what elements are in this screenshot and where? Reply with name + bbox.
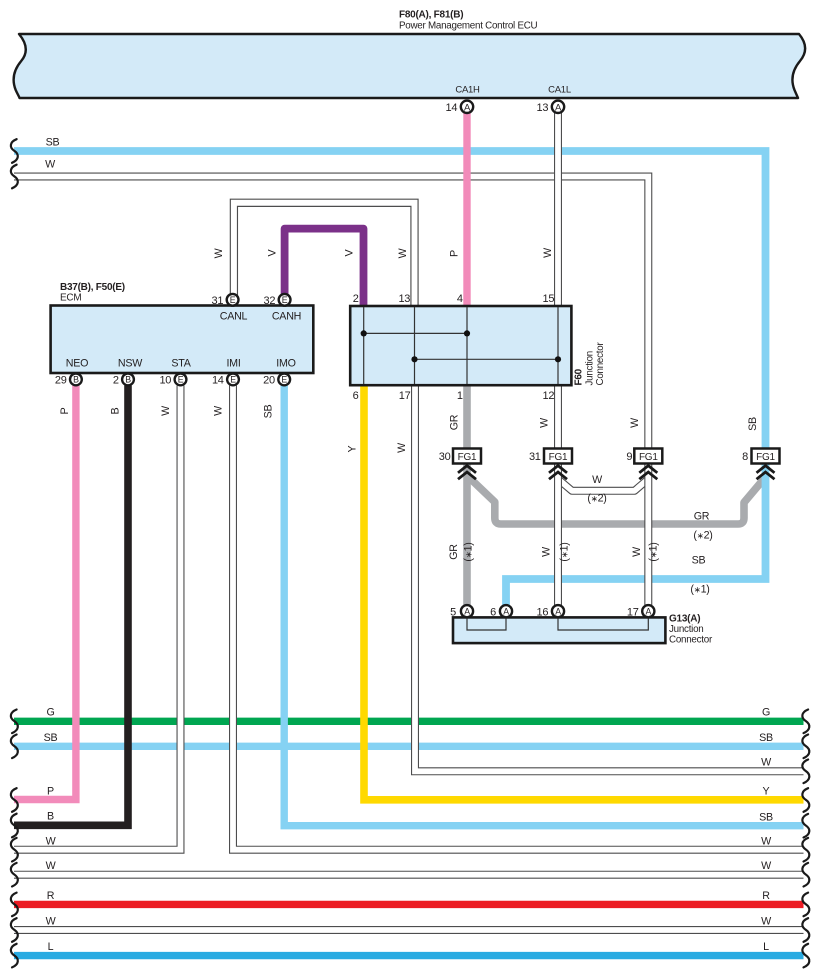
bottom left wire labels — [44, 707, 58, 954]
break symbol left G — [11, 710, 18, 734]
break symbol left W row7 — [11, 863, 18, 887]
label GR (wire F60 pin 1) — [449, 414, 461, 430]
svg-text:V: V — [267, 248, 279, 256]
svg-text:17: 17 — [627, 607, 639, 619]
svg-text:W: W — [629, 417, 641, 428]
svg-text:A: A — [645, 607, 651, 617]
break symbol right W row6 — [802, 838, 809, 862]
svg-text:W: W — [541, 546, 553, 557]
svg-text:W: W — [160, 405, 172, 416]
shield symbol below 30 FG1 — [458, 466, 476, 480]
svg-text:Connector: Connector — [595, 342, 606, 386]
svg-text:W: W — [397, 247, 409, 258]
connector 8 FG1 — [742, 449, 779, 464]
svg-text:B: B — [47, 811, 54, 823]
svg-text:L: L — [763, 941, 769, 953]
ECM pin 10 E — [159, 374, 186, 387]
svg-text:9: 9 — [626, 451, 632, 463]
svg-text:GR: GR — [449, 414, 461, 430]
shield symbol below 8 FG1 — [757, 466, 775, 480]
svg-text:SB: SB — [46, 137, 60, 149]
label W (wire F60 pin 12) — [539, 417, 551, 428]
label W (wire CANL loop) — [213, 247, 225, 258]
svg-text:B: B — [125, 375, 131, 385]
svg-text:IMI: IMI — [226, 358, 240, 370]
svg-text:F60: F60 — [574, 368, 585, 385]
svg-text:CA1L: CA1L — [548, 85, 571, 96]
shield symbol below 9 FG1 — [639, 466, 657, 480]
svg-text:A: A — [464, 607, 470, 617]
connector CA1H pin 14 A — [446, 101, 474, 114]
svg-text:W: W — [46, 916, 57, 928]
svg-text:6: 6 — [490, 607, 496, 619]
svg-text:B: B — [110, 407, 122, 414]
svg-text:GR: GR — [448, 544, 460, 560]
svg-text:Y: Y — [347, 445, 359, 452]
label SB (top left row) — [46, 137, 60, 149]
ECM pin 32 E — [264, 294, 291, 307]
ECM pin 20 E — [263, 374, 290, 387]
svg-text:12: 12 — [543, 390, 555, 402]
svg-text:FG1: FG1 — [458, 452, 477, 463]
svg-text:32: 32 — [264, 295, 276, 307]
svg-text:W: W — [542, 247, 554, 258]
wire GR (*1) from F60 pin 1 through 30 FG1 to G13 pin 5 — [463, 385, 471, 606]
G13 pin 17 A — [627, 605, 655, 618]
label B (wire NSW) — [110, 407, 122, 414]
wire W (white, bottom full row 2) — [14, 926, 804, 934]
wire W: F60 pin 12 through 31 FG1 to G13 pin 16 — [554, 386, 562, 605]
svg-text:FG1: FG1 — [549, 452, 568, 463]
svg-text:SB: SB — [759, 732, 773, 744]
svg-text:13: 13 — [537, 102, 549, 114]
svg-text:NEO: NEO — [66, 358, 88, 370]
svg-text:17: 17 — [399, 390, 411, 402]
svg-text:Junction: Junction — [585, 351, 596, 386]
svg-text:R: R — [47, 890, 55, 902]
label W (wire above 9 FG1) — [629, 417, 641, 428]
svg-text:W: W — [761, 860, 772, 872]
F60 junction connector box — [350, 293, 606, 402]
label V (wire CANH right) — [344, 248, 356, 256]
connector CA1L pin 13 A — [537, 101, 565, 114]
svg-text:(∗1): (∗1) — [648, 542, 660, 561]
break symbol left L — [11, 944, 18, 968]
break symbol right W row9 — [802, 918, 809, 942]
break symbol left W top — [11, 165, 18, 189]
G13 pin 16 A — [537, 605, 565, 618]
break symbol left W row6 — [11, 838, 18, 862]
svg-text:G: G — [762, 707, 770, 719]
svg-text:B: B — [73, 375, 79, 385]
svg-text:2: 2 — [353, 293, 359, 305]
wire B: ECM NSW pin 2 down then left to edge — [14, 386, 128, 826]
svg-text:P: P — [59, 407, 71, 414]
label W (*1) below 31 FG1 — [541, 542, 571, 561]
svg-text:P: P — [47, 786, 54, 798]
svg-text:Junction: Junction — [669, 624, 704, 635]
svg-text:E: E — [230, 375, 236, 385]
label W (*2) on shield link — [587, 474, 606, 505]
wire W (white, bottom full row 1) — [14, 871, 804, 879]
wire W (*2) link between 31 FG1 and 9 FG1 shields — [558, 479, 648, 491]
svg-text:8: 8 — [742, 451, 748, 463]
wire Y: F60 pin 6 down then right to edge — [364, 386, 804, 800]
svg-text:STA: STA — [171, 358, 191, 370]
wire SB main: top row to right side down to SB(*1) into G13 pin 6 — [14, 151, 766, 605]
svg-text:V: V — [344, 248, 356, 256]
wire W: F60 pin 17 down then right to edge — [415, 386, 804, 771]
svg-text:31: 31 — [212, 295, 224, 307]
svg-text:G: G — [46, 707, 54, 719]
svg-text:W: W — [213, 405, 225, 416]
break symbol left SB top — [11, 139, 18, 163]
svg-text:W: W — [46, 860, 57, 872]
svg-text:14: 14 — [212, 374, 224, 386]
label W (wire F60 pin 17) — [396, 442, 408, 453]
svg-text:(∗1): (∗1) — [690, 584, 709, 596]
ECU F80/F81 band (Power Management Control ECU) — [14, 10, 805, 99]
wire R (red, bottom row) — [14, 901, 804, 908]
svg-text:14: 14 — [446, 102, 458, 114]
svg-text:IMO: IMO — [276, 358, 295, 370]
svg-text:31: 31 — [529, 451, 541, 463]
svg-text:FG1: FG1 — [756, 452, 775, 463]
wire W: ECM STA pin 10 down then left to edge — [14, 386, 181, 850]
ECM pin 29 B — [55, 374, 82, 387]
label W (wire IMI) — [213, 405, 225, 416]
svg-text:16: 16 — [537, 607, 549, 619]
svg-text:(∗2): (∗2) — [587, 493, 606, 505]
G13 pin 6 A — [490, 605, 512, 618]
break symbol left B — [11, 814, 18, 838]
svg-text:GR: GR — [694, 511, 710, 523]
G13 pin 5 A — [450, 605, 473, 618]
label P (wire CA1H) — [449, 250, 461, 257]
connector 9 FG1 — [626, 449, 662, 464]
wire L (blue, bottom row) — [14, 952, 804, 959]
svg-text:(∗1): (∗1) — [559, 542, 571, 561]
svg-text:20: 20 — [263, 374, 275, 386]
svg-text:E: E — [230, 295, 236, 305]
label P (wire NEO) — [59, 407, 71, 414]
svg-text:NSW: NSW — [118, 358, 143, 370]
label GR (*2) on gray branch — [693, 511, 712, 542]
svg-text:10: 10 — [159, 374, 171, 386]
break symbol left W row9 — [11, 918, 18, 942]
svg-text:(∗1): (∗1) — [463, 542, 475, 561]
svg-text:CANL: CANL — [220, 311, 248, 323]
svg-text:W: W — [761, 916, 772, 928]
svg-text:CA1H: CA1H — [455, 85, 480, 96]
break symbol right Y — [802, 788, 809, 812]
svg-text:W: W — [213, 247, 225, 258]
svg-text:1: 1 — [457, 390, 463, 402]
shield symbol below 31 FG1 — [549, 466, 567, 480]
svg-text:5: 5 — [450, 607, 456, 619]
connector 31 FG1 — [529, 449, 572, 464]
svg-text:A: A — [464, 102, 471, 113]
svg-text:F80(A), F81(B): F80(A), F81(B) — [399, 10, 463, 21]
wire P: ECM NEO pin 29 down then left to edge — [14, 386, 76, 800]
svg-text:A: A — [503, 607, 509, 617]
svg-text:CANH: CANH — [272, 311, 301, 323]
svg-text:W: W — [761, 757, 772, 769]
ECM pin 14 E — [212, 374, 239, 387]
bottom right wire labels — [759, 707, 773, 954]
break symbol right G — [802, 710, 809, 734]
break symbol left P — [11, 788, 18, 812]
svg-text:W: W — [539, 417, 551, 428]
label SB (wire IMO) — [263, 405, 275, 419]
wire W: ECM IMI pin 14 down then right to edge — [233, 386, 804, 850]
svg-text:SB: SB — [263, 405, 275, 419]
svg-text:R: R — [762, 890, 770, 902]
svg-text:ECM: ECM — [60, 293, 81, 304]
wire W: CA1L down to F60 pin 15 — [554, 113, 562, 306]
break symbol left R — [11, 893, 18, 917]
svg-text:E: E — [282, 295, 288, 305]
svg-text:A: A — [555, 102, 562, 113]
svg-text:W: W — [631, 546, 643, 557]
break symbol right R — [802, 893, 809, 917]
svg-text:4: 4 — [457, 293, 463, 305]
svg-text:Y: Y — [763, 786, 770, 798]
svg-text:B37(B), F50(E): B37(B), F50(E) — [60, 282, 125, 293]
svg-text:SB: SB — [759, 811, 773, 823]
svg-text:Connector: Connector — [669, 635, 713, 646]
break symbol right SB — [802, 735, 809, 759]
svg-text:15: 15 — [543, 293, 555, 305]
break symbol right W row3 — [802, 760, 809, 784]
svg-text:A: A — [555, 607, 561, 617]
break symbol right SB row5 — [802, 814, 809, 838]
svg-text:SB: SB — [747, 417, 759, 431]
wire W: top row turning down through 9 FG1 to G13 pin 17 — [14, 177, 648, 606]
wire SB: ECM IMO pin 20 down then right to edge — [284, 386, 803, 826]
connector 30 FG1 — [439, 449, 481, 464]
svg-text:W: W — [592, 474, 603, 486]
wire GR shield branch (*2) from 30 FG1 to 8 FG1 — [467, 476, 766, 525]
svg-text:13: 13 — [398, 293, 410, 305]
G13(A) junction connector box — [453, 614, 713, 646]
label SB (*1) on SB branch — [690, 555, 709, 596]
label W (wire STA) — [160, 405, 172, 416]
svg-text:2: 2 — [113, 374, 119, 386]
label W (wire into F60 pin 13) — [397, 247, 409, 258]
wire P: CA1H down to F60 pin 4 — [463, 113, 470, 306]
ECM pin 31 E — [212, 294, 239, 307]
svg-text:W: W — [45, 159, 56, 171]
svg-text:G13(A): G13(A) — [669, 614, 700, 625]
break symbol right L — [802, 944, 809, 968]
svg-text:E: E — [178, 375, 184, 385]
svg-text:30: 30 — [439, 451, 451, 463]
svg-text:L: L — [48, 941, 54, 953]
break symbol right W row7 — [802, 863, 809, 887]
wire V: ECM pin 32 CANH up and over to F60 pin 2 — [285, 229, 364, 306]
label SB (wire above 8 FG1) — [747, 417, 759, 431]
label W (*1) below 9 FG1 — [631, 542, 660, 561]
svg-text:W: W — [46, 836, 57, 848]
svg-text:SB: SB — [692, 555, 706, 567]
svg-text:FG1: FG1 — [639, 452, 658, 463]
label V (wire CANH left) — [267, 248, 279, 256]
svg-text:(∗2): (∗2) — [693, 530, 712, 542]
svg-text:29: 29 — [55, 374, 67, 386]
ECM box B37(B), F50(E) — [51, 282, 314, 373]
wire W loop: ECM pin 31 CANL up and over to F60 pin 13 — [234, 203, 415, 306]
ECM pin 2 B — [113, 374, 134, 387]
label Y (wire F60 pin 6) — [347, 445, 359, 452]
break symbol left SB — [11, 735, 18, 759]
svg-text:P: P — [449, 250, 461, 257]
label W (top left row) — [45, 159, 56, 171]
svg-text:W: W — [761, 836, 772, 848]
wire G (green, bottom row) — [14, 718, 804, 725]
label W (wire CA1L) — [542, 247, 554, 258]
svg-text:Power Management Control ECU: Power Management Control ECU — [399, 21, 538, 32]
svg-text:6: 6 — [353, 390, 359, 402]
svg-text:E: E — [281, 375, 287, 385]
svg-text:SB: SB — [44, 732, 58, 744]
svg-text:W: W — [396, 442, 408, 453]
wire SB (light blue, bottom row) — [14, 743, 804, 750]
label GR (*1) below 30 FG1 — [448, 542, 475, 561]
